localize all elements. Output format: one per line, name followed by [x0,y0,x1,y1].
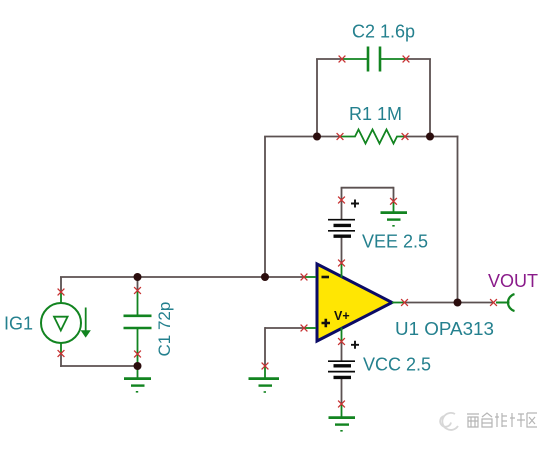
svg-text:VCC 2.5: VCC 2.5 [363,355,431,375]
plus sign VEE [351,200,359,208]
junction C1 bottom [134,362,142,370]
junction C1 top [134,273,142,281]
wire R1 right lead [405,136,430,138]
capacitor C2 [342,47,406,72]
node VOUT terminal [496,294,515,311]
wire feedback left vertical x=265 [60,59,494,405]
pin mark opamp +in [301,325,308,332]
wire VEE top rail [341,187,394,189]
pin mark C1 bottom [134,351,141,358]
current source IG1 [41,292,90,354]
svg-text:C2 1.6p: C2 1.6p [352,22,415,42]
svg-text:VEE 2.5: VEE 2.5 [362,232,428,252]
wire C2 top left [316,58,342,60]
ground VEE rail [381,203,408,226]
pin mark IG1 bottom [58,350,65,357]
wire C2 top right [406,58,431,60]
ground below +input [249,366,280,392]
junction output [454,299,462,307]
wire input row y=277 [60,276,304,278]
wire R1 row right [430,136,458,138]
pin mark opamp out [401,299,408,306]
wire VEE to opamp [341,236,343,263]
pin mark R1 left [337,133,344,140]
wire output row [404,302,494,304]
junction R1 right [426,133,434,141]
wire VEE plus vertical [341,188,343,220]
ground below C1 [124,366,151,392]
wire R1 row left [264,136,317,138]
junction feedback input [261,273,269,281]
pin mark opamp top [338,260,345,267]
svg-text:U1 OPA313: U1 OPA313 [395,319,494,339]
wire IG1 top [60,277,62,292]
wire VEE gnd vertical [393,187,395,203]
wire +input ground vertical [264,327,266,366]
wire C1 top stub [137,277,139,291]
svg-text:VOUT: VOUT [488,271,538,291]
wire VCC to ground [341,378,343,404]
watermark logo [440,413,458,430]
wire C2 right vertical [429,59,431,138]
pin mark IG1 top [58,289,65,296]
resistor R1 [340,130,405,144]
pin mark gnd +input [262,363,269,370]
pin mark R1 right [402,133,409,140]
wire opamp to VCC [341,342,343,362]
wire +input row y=328 [265,327,304,329]
svg-text:R1 1M: R1 1M [349,104,402,124]
pin mark VCC gnd [338,401,345,408]
wire IG1 bottom [60,354,62,367]
wire output vertical x=457.5 [457,136,459,303]
plus sign VCC [351,341,359,349]
ground below VCC [329,404,356,431]
op-amp U1 [304,263,405,342]
svg-text:C1 72p: C1 72p [155,302,174,357]
wire C2 left vertical [316,59,318,138]
battery VCC [328,361,355,377]
pin mark VOUT [490,299,497,306]
svg-text:V+: V+ [334,309,350,323]
battery VEE [328,220,355,237]
wire R1 left lead [317,136,340,138]
svg-text:IG1: IG1 [4,314,33,334]
pin mark opamp -in [301,274,308,281]
wire bottom row to C1 [60,365,137,367]
pin mark C1 top [134,287,141,294]
junction R1 left [313,133,321,141]
pin mark opamp bottom [338,338,345,345]
watermark text [467,413,537,427]
pin mark C2 right [403,56,410,63]
pin mark VEE plus [338,197,345,204]
pin mark C2 left [339,56,346,63]
capacitor C1 [124,291,152,367]
pin mark VEE gnd [390,198,397,205]
